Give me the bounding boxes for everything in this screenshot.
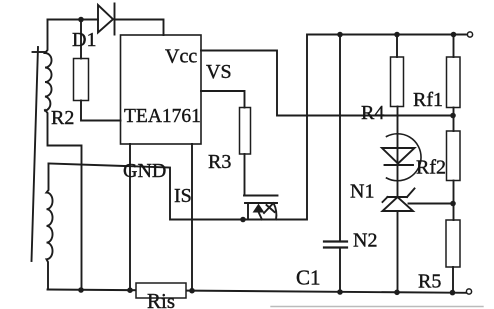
terminal bottom right	[466, 289, 471, 294]
transistor Q1 channel bar	[245, 202, 277, 204]
wire R3 bottom to gate	[244, 154, 246, 196]
node top rail/R4 junction dot	[394, 32, 400, 38]
node rail/N2 junction dot	[394, 290, 400, 296]
terminal top right	[467, 32, 472, 37]
wire VS pin to R3 top	[201, 91, 245, 108]
wire top-left node to diode anode	[48, 19, 99, 21]
transformer core line	[32, 47, 39, 261]
node rail/C1 junction dot	[337, 289, 343, 295]
wire lower winding top / MOSFET source / drain rail up to top rail	[49, 35, 467, 220]
opto N1 circle arc	[387, 134, 422, 181]
resistor R2	[80, 20, 82, 59]
svg-text:VS: VS	[206, 61, 232, 83]
winding W2 (lower secondary)	[47, 164, 53, 290]
svg-text:R5: R5	[418, 271, 441, 293]
capacitor C1 branch wire top	[339, 35, 341, 241]
svg-text:Rf1: Rf1	[413, 89, 443, 111]
wire GND pin down to rail	[129, 144, 131, 290]
node divider junction dot	[450, 201, 456, 207]
diode D1	[98, 4, 115, 35]
wire N2 ref to divider junction	[409, 203, 454, 205]
opto LED N1	[382, 148, 415, 165]
svg-text:R4: R4	[361, 102, 384, 124]
svg-text:C1: C1	[296, 266, 321, 290]
svg-text:Rf2: Rf2	[416, 157, 446, 179]
wire bottom rail	[48, 290, 467, 293]
wire winding W1 bottom to bottom rail	[45, 110, 82, 290]
node top rail/Rf1 junction dot	[451, 32, 457, 38]
wire R4 bottom through LED to TL431	[397, 107, 399, 197]
capacitor C1 plates	[324, 242, 347, 248]
shunt regulator N2 cathode bar and ref arm	[383, 189, 415, 203]
faint scan line bottom right	[271, 306, 483, 308]
transistor Q1 right marks	[264, 203, 276, 220]
svg-text:Ris: Ris	[147, 289, 175, 309]
svg-text:R3: R3	[208, 151, 231, 173]
capacitor C1 branch wire bottom	[339, 248, 341, 293]
node rail/IS junction dot	[189, 288, 195, 294]
svg-text:D1: D1	[72, 29, 96, 51]
transistor Q1 body arrow stem	[259, 212, 263, 220]
node MOSFET source junction dot	[240, 217, 246, 223]
transistor Q1 body arrow	[254, 205, 264, 213]
resistor R3	[240, 108, 251, 155]
wire R2 bottom to IC left pin	[81, 101, 121, 121]
svg-text:N1: N1	[350, 181, 374, 203]
core top tick	[33, 51, 47, 53]
svg-text:N2: N2	[353, 230, 377, 252]
node rail/R5 junction dot	[450, 290, 456, 296]
node rail/winding junction dot	[78, 287, 84, 293]
node top rail/C1 junction dot	[337, 32, 343, 38]
wire IS pin down to rail	[191, 144, 193, 291]
IC U1 TEA1761	[121, 35, 202, 144]
svg-text:R2: R2	[51, 107, 74, 129]
resistor R5	[446, 220, 460, 267]
resistor Rf1	[453, 35, 455, 58]
wire D1 cathode to IC Vcc top	[115, 20, 164, 36]
transistor Q1 left leg	[247, 203, 249, 220]
resistor Ris (on bottom rail)	[136, 283, 186, 298]
shunt regulator N2 (TL431)	[383, 197, 414, 211]
wire N2 bottom to rail	[397, 211, 399, 292]
node A junction dot (D1 anode / R2 top)	[78, 17, 84, 23]
resistor R4	[396, 35, 398, 58]
svg-text:Vcc: Vcc	[165, 46, 197, 68]
transistor Q1 (sync-rect MOSFET) gate bar	[244, 195, 278, 197]
svg-text:GND: GND	[123, 160, 166, 182]
winding W1 (upper secondary)	[45, 20, 52, 111]
svg-text:IS: IS	[174, 185, 192, 207]
node Rf1 bottom junction dot	[450, 113, 456, 119]
svg-text:TEA1761: TEA1761	[124, 106, 201, 127]
resistor Rf2	[447, 131, 461, 181]
wire Rf1 bottom to Rf2 top	[453, 108, 455, 132]
node rail/GND junction dot	[127, 287, 133, 293]
wire Vcc pin to Rf1 bottom node	[201, 51, 453, 116]
